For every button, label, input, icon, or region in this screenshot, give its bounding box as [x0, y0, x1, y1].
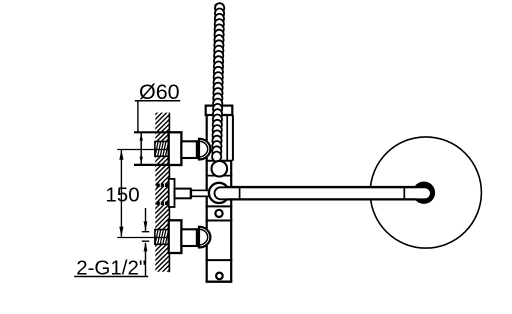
valve 2 dome cap	[199, 227, 210, 248]
valve 2 neck	[181, 229, 197, 246]
leader drop line O60	[137, 101, 139, 133]
tick G1/2 top	[142, 231, 150, 233]
arrow 150 top	[119, 150, 123, 160]
extension line flange bottom	[134, 164, 169, 166]
arrow O60 bottom	[140, 157, 143, 164]
bottom box top division	[206, 259, 233, 261]
shower head disc	[370, 137, 481, 248]
rail outer vertical (upper section)	[232, 115, 234, 161]
shower arm capsule interior	[215, 187, 431, 199]
column right vertical	[230, 160, 232, 281]
hose elbow connector	[212, 161, 228, 177]
dimension line O60 vertical	[140, 132, 142, 165]
screw hole 1	[215, 210, 222, 217]
flexible shower hose (corrugated)	[215, 3, 224, 13]
tick G1/2 bottom	[142, 240, 150, 242]
dimension line G1/2 lower segment	[145, 243, 147, 276]
narrow pipe white gap through left vertical	[192, 191, 209, 195]
column left vertical	[206, 115, 208, 282]
svg-text:2-G1/2": 2-G1/2"	[76, 256, 146, 279]
arm joint tick near head	[403, 188, 405, 198]
svg-text:150: 150	[105, 184, 139, 207]
column division above elbow	[206, 160, 233, 162]
valve 2 centerline	[117, 237, 168, 239]
valve 2 dome inner arc	[200, 229, 208, 245]
valve 1 dome cap	[199, 139, 210, 160]
wall surface line	[168, 113, 170, 273]
arrow G1/2 upper (points down)	[144, 221, 148, 231]
arrow 150 bottom	[119, 227, 123, 237]
dimension line 150	[120, 150, 122, 237]
screw box bottom division	[206, 220, 233, 222]
arm top edge	[227, 186, 417, 188]
top bracket	[206, 106, 233, 115]
arrow G1/2 lower (points up)	[144, 242, 148, 252]
arm hub circle	[209, 183, 229, 203]
valve 1 escutcheon flange	[169, 132, 182, 165]
valve 1 centerline	[117, 149, 168, 151]
arrow O60 top	[140, 133, 143, 140]
extension line flange top	[134, 131, 169, 133]
wall plate middle	[169, 179, 175, 207]
valve 1 neck	[181, 141, 197, 158]
column division below elbow	[206, 175, 233, 177]
wall screw upper	[156, 184, 168, 188]
arm joint tick near column	[239, 188, 241, 198]
shower hose end cap	[214, 3, 224, 8]
dimension line G1/2 upper segment	[145, 208, 147, 231]
ball joint (black)	[413, 182, 435, 204]
valve 1 divider bar	[196, 140, 199, 158]
column bottom edge	[206, 281, 233, 283]
leader underline 2-G1/2	[74, 276, 148, 278]
arm bottom edge	[227, 198, 417, 200]
column division below arm hub	[206, 205, 233, 207]
rail inner vertical (upper section)	[226, 115, 228, 161]
valve 1 dome inner arc	[200, 141, 208, 157]
pipe step line	[190, 189, 192, 198]
middle supply pipe wide	[175, 189, 191, 199]
wall screw lower	[156, 202, 168, 206]
dimension leader underline for O60	[135, 100, 180, 102]
valve 2 escutcheon flange	[169, 220, 182, 253]
valve 2 divider bar	[196, 228, 199, 246]
middle supply pipe narrow	[191, 190, 210, 196]
screw hole 2	[216, 273, 223, 280]
